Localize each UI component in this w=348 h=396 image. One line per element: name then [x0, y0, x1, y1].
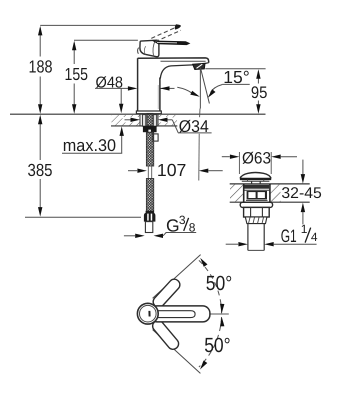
handle knob (cartridge cap) — [140, 40, 159, 57]
waste flange below countertop — [240, 202, 272, 207]
label G 3/8 with underline leader — [124, 235, 135, 237]
lever inner detail line — [158, 311, 195, 318]
svg-text:107: 107 — [157, 160, 187, 180]
spout underside curve into body — [160, 65, 193, 79]
svg-text:1: 1 — [301, 222, 308, 236]
overflow window block — [247, 191, 267, 200]
dimension 155 reference line — [74, 39, 138, 41]
15 degree arc arrow left — [177, 87, 191, 93]
15 degree slanted ray — [200, 68, 209, 104]
dimension 188 — [39, 28, 41, 57]
svg-text:Ø34: Ø34 — [179, 117, 209, 136]
flexible hose braid upper segment — [146, 132, 153, 166]
lever plan view (horizontal) — [150, 306, 210, 322]
spout second top line — [161, 60, 206, 62]
horizontal centerline — [194, 313, 229, 315]
svg-text:8: 8 — [189, 220, 196, 234]
hose break (inner tube lines) — [147, 166, 149, 179]
dimension 107 — [128, 170, 137, 172]
dimension 188 reference line (top) — [40, 24, 177, 26]
dimension diameter 48 — [95, 87, 129, 89]
svg-text:Ø48: Ø48 — [96, 75, 124, 92]
waste locking nut — [244, 207, 270, 217]
countertop hatching left of faucet hole — [112, 115, 140, 125]
faucet body column — [138, 58, 209, 111]
lever blade (closed position) — [152, 41, 191, 46]
water stream vertical ray — [199, 69, 201, 109]
waste body through countertop — [243, 184, 245, 202]
countertop at waste (bottom line) — [230, 201, 310, 203]
countertop top line — [10, 113, 266, 115]
arc arrowheads — [200, 258, 207, 267]
svg-text:3: 3 — [179, 213, 186, 227]
thread start band — [245, 217, 267, 224]
svg-text:155: 155 — [65, 64, 89, 84]
hatching left of waste — [230, 185, 243, 202]
countertop bottom line (left slab) — [111, 125, 177, 127]
label G1 1/4 with arrows — [226, 243, 239, 245]
svg-text:95: 95 — [251, 83, 268, 102]
15 degree arc arrow right — [211, 85, 223, 93]
lower 50deg ray — [153, 330, 201, 374]
hose end connector nut — [146, 211, 154, 213]
G3/8 threaded tail tube — [145, 222, 152, 233]
handle ball — [137, 303, 158, 324]
waste tail pipe G1 1/4 — [247, 224, 249, 251]
hatching right of waste — [270, 185, 280, 202]
side fitting on shank — [153, 134, 158, 141]
svg-text:50°: 50° — [206, 272, 233, 295]
upper 50deg ray — [153, 255, 201, 299]
svg-text:Ø63: Ø63 — [242, 149, 271, 167]
faucet base plate — [136, 111, 161, 114]
svg-text:4: 4 — [311, 230, 318, 244]
threaded shank through hole — [147, 113, 153, 132]
dimension diameter 34 (hole) — [125, 119, 132, 121]
mounting nut (dark) — [143, 126, 157, 132]
lever raised position (dashed) — [151, 27, 176, 39]
svg-text:max.30: max.30 — [63, 136, 116, 155]
mounting shank side studs — [142, 115, 145, 127]
waste dome cap — [240, 173, 271, 179]
lever rotated down 50deg (ghost) — [150, 318, 180, 351]
clearance for diameter34 arrows — [123, 117, 140, 122]
dome stem — [251, 181, 253, 184]
50deg arc (dashed) — [199, 260, 222, 367]
flexible hose braid lower segment — [146, 179, 153, 213]
svg-text:50°: 50° — [204, 334, 231, 357]
svg-text:G: G — [166, 215, 180, 235]
countertop at waste (top line) — [230, 183, 310, 185]
dimension 155 — [73, 43, 75, 64]
faucet hole edges in countertop — [139, 114, 141, 126]
dimension 385 — [39, 117, 41, 160]
svg-text:385: 385 — [28, 160, 53, 180]
body right-edge highlight line — [157, 85, 159, 109]
stream extension line through countertop — [199, 109, 201, 118]
countertop hatching right of faucet hole — [158, 115, 177, 125]
dimension 95 — [257, 72, 259, 84]
lever rotated up 50deg (ghost) — [151, 277, 182, 309]
aerator (mousseur) at spout tip — [205, 62, 209, 65]
raised lever tip — [175, 24, 181, 29]
svg-text:G1: G1 — [281, 226, 297, 246]
dimension max.30 drop line with down arrow — [120, 88, 122, 105]
dimension diameter 63 — [222, 156, 230, 158]
hose-end reference line (bottom of 385) — [25, 216, 141, 218]
spout outlet reference line (95) — [205, 68, 265, 70]
dimension 32-45 (counter thickness) — [302, 160, 304, 175]
svg-text:32-45: 32-45 — [281, 185, 321, 202]
svg-text:188: 188 — [29, 57, 53, 77]
